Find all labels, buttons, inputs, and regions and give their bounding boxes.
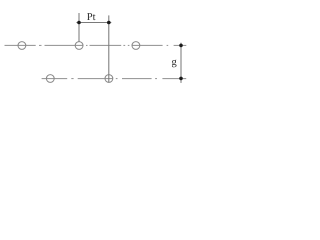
terminator dot g bottom	[179, 77, 183, 81]
tube circle T5 row2	[105, 75, 113, 83]
wire: row1 dash e	[174, 44, 187, 46]
svg-text:g: g	[172, 57, 178, 68]
wire: row1 dot d	[128, 44, 130, 46]
tube circle T2 row1	[75, 42, 83, 50]
wire: row1 dot a	[39, 44, 42, 46]
wire: row1 dash c	[90, 44, 122, 46]
center line row 2 (dash-dot)	[42, 78, 187, 80]
dimension line Pt	[76, 22, 111, 24]
extension line left of dimension Pt	[78, 13, 80, 42]
wire: row2 dot c	[155, 78, 157, 80]
wire: row2 dash b	[78, 78, 113, 80]
tube circle T3 row1	[132, 42, 140, 50]
extension line right of dimension Pt	[108, 15, 110, 82]
wire: row1 dot e	[167, 44, 169, 46]
wire: row2 dot a	[71, 78, 73, 80]
wire: row1 dash a	[5, 44, 36, 46]
wire: row2 dash d	[162, 78, 186, 80]
wire: row2 dash c	[122, 78, 152, 80]
terminator dot g top	[179, 44, 183, 48]
tube circle T1 row1	[18, 42, 26, 50]
dimension line g	[180, 43, 182, 83]
terminator dot Pt right	[107, 21, 111, 25]
wire: row1 dot c	[123, 44, 125, 46]
terminator dot Pt left	[77, 21, 81, 25]
wire: row2 dash a	[42, 78, 68, 80]
wire: row1 dash b	[45, 44, 84, 46]
center line row 1 (dash-dot)	[5, 44, 187, 46]
tube circle T4 row2	[46, 75, 54, 83]
wire: row2 dot b	[116, 78, 118, 80]
wire: row1 dash d	[132, 44, 163, 46]
svg-text:Pt: Pt	[87, 12, 96, 23]
wire: row1 dot b	[86, 44, 88, 46]
